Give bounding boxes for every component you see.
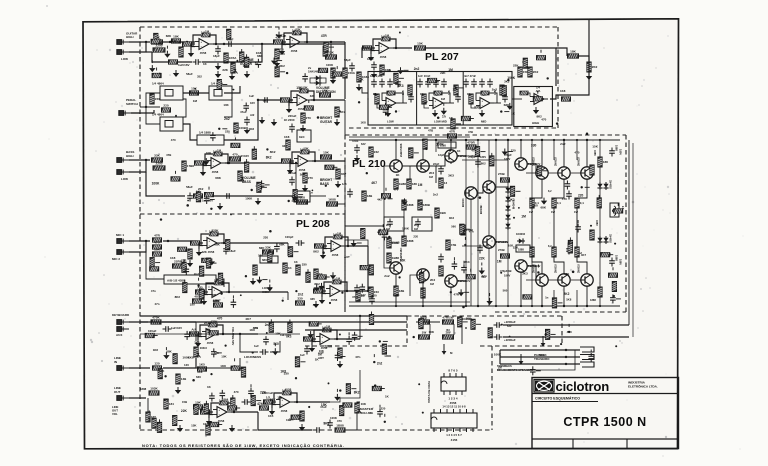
svg-text:8K2: 8K2 (263, 98, 269, 102)
svg-text:188: 188 (412, 182, 417, 186)
svg-text:4558: 4558 (200, 51, 207, 55)
svg-text:KEYBOARD: KEYBOARD (112, 313, 130, 317)
svg-text:0,1: 0,1 (580, 201, 585, 205)
svg-text:330: 330 (297, 297, 302, 301)
svg-text:18K: 18K (570, 50, 576, 54)
svg-text:22K: 22K (513, 64, 519, 68)
svg-text:47R/1W: 47R/1W (442, 316, 453, 320)
svg-text:58uF: 58uF (186, 185, 193, 189)
svg-text:1N4002: 1N4002 (516, 232, 526, 236)
svg-text:B913C: B913C (461, 198, 465, 207)
svg-text:4558: 4558 (285, 387, 292, 391)
svg-text:GUITAR: GUITAR (320, 120, 333, 124)
svg-text:8K2: 8K2 (537, 115, 543, 119)
svg-text:1n: 1n (545, 295, 549, 299)
svg-text:1M: 1M (429, 175, 434, 179)
svg-text:AUX: AUX (116, 333, 122, 337)
svg-text:1 2 3 4 5 6 7: 1 2 3 4 5 6 7 (446, 433, 462, 437)
svg-text:22K: 22K (222, 68, 228, 72)
svg-text:330: 330 (284, 372, 289, 376)
svg-text:68K: 68K (279, 243, 285, 247)
svg-text:58pF: 58pF (344, 58, 351, 62)
svg-text:2N6618: 2N6618 (578, 157, 581, 166)
svg-text:1M: 1M (337, 231, 342, 235)
svg-text:68K: 68K (215, 176, 221, 180)
svg-text:100K: 100K (325, 345, 333, 349)
svg-text:180V: 180V (504, 274, 510, 278)
svg-text:0,1: 0,1 (557, 201, 562, 205)
svg-text:MIC 2: MIC 2 (112, 257, 120, 261)
svg-text:1M: 1M (418, 183, 423, 187)
svg-text:8K2: 8K2 (286, 334, 292, 338)
svg-text:47R: 47R (278, 48, 284, 52)
svg-text:220uF: 220uF (288, 171, 297, 175)
svg-text:2xBC5396: 2xBC5396 (399, 143, 403, 157)
svg-text:10K: 10K (319, 349, 324, 353)
svg-text:A/A: A/A (191, 328, 197, 332)
svg-text:470R: 470R (467, 141, 475, 145)
svg-text:VOLUME: VOLUME (360, 411, 373, 415)
svg-text:470: 470 (171, 138, 176, 142)
svg-text:PL 208: PL 208 (296, 218, 330, 230)
svg-text:18B: 18B (399, 289, 405, 293)
svg-text:100K: 100K (402, 227, 410, 231)
svg-text:8K2: 8K2 (481, 161, 487, 165)
svg-text:100B: 100B (239, 126, 247, 130)
svg-text:4558: 4558 (291, 49, 298, 53)
svg-text:1K8: 1K8 (361, 120, 367, 124)
svg-text:22K: 22K (440, 71, 446, 75)
svg-text:1nF 10nF: 1nF 10nF (418, 74, 431, 78)
svg-text:1864: 1864 (222, 397, 229, 401)
svg-text:47n: 47n (373, 92, 378, 96)
svg-text:LOW MID: LOW MID (434, 120, 447, 124)
svg-text:1M: 1M (448, 68, 453, 72)
svg-text:470: 470 (217, 317, 223, 321)
svg-text:1888: 1888 (518, 248, 524, 252)
svg-text:335: 335 (310, 297, 315, 301)
svg-text:10K: 10K (221, 355, 227, 359)
svg-text:220: 220 (578, 193, 584, 197)
svg-text:220: 220 (372, 293, 377, 297)
svg-text:2n2: 2n2 (171, 39, 177, 43)
svg-text:3K3: 3K3 (448, 174, 454, 178)
svg-text:1N4148: 1N4148 (308, 70, 319, 74)
svg-text:470K: 470K (152, 316, 160, 320)
svg-text:2K2: 2K2 (592, 65, 598, 69)
svg-text:4K7: 4K7 (371, 181, 377, 185)
svg-text:100uF: 100uF (148, 329, 157, 333)
svg-text:330: 330 (190, 303, 195, 307)
svg-text:15K: 15K (322, 89, 328, 93)
svg-text:VISTA DE CIMA: VISTA DE CIMA (427, 380, 431, 403)
svg-text:330: 330 (531, 143, 537, 147)
svg-text:CIRCUITO ESQUEMÁTICO: CIRCUITO ESQUEMÁTICO (535, 396, 580, 401)
svg-text:220: 220 (225, 130, 230, 134)
svg-text:1K: 1K (457, 149, 460, 153)
svg-text:MID: MID (259, 246, 264, 250)
svg-text:270: 270 (306, 116, 311, 120)
svg-text:SWITCH: SWITCH (126, 102, 138, 106)
svg-text:470: 470 (393, 188, 398, 192)
svg-text:ciclotron: ciclotron (556, 379, 610, 394)
svg-text:47B: 47B (451, 243, 457, 247)
svg-text:560: 560 (481, 275, 486, 279)
svg-text:2K2: 2K2 (204, 321, 210, 325)
svg-text:16V: 16V (250, 101, 255, 105)
svg-text:15K: 15K (321, 403, 328, 407)
svg-text:15K: 15K (513, 245, 519, 249)
svg-text:1BC: 1BC (299, 135, 305, 139)
svg-text:2n2: 2n2 (377, 362, 383, 366)
svg-text:103K: 103K (150, 387, 158, 391)
svg-text:470: 470 (337, 419, 342, 423)
svg-text:1888: 1888 (140, 387, 147, 391)
svg-text:BASS: BASS (320, 182, 329, 186)
svg-text:47R: 47R (321, 34, 328, 38)
svg-text:180V: 180V (504, 157, 510, 161)
svg-text:LOW: LOW (121, 177, 128, 181)
svg-text:1K8: 1K8 (560, 89, 566, 93)
svg-text:1M: 1M (336, 276, 341, 280)
svg-text:184: 184 (169, 402, 174, 406)
svg-text:47n: 47n (257, 402, 263, 406)
svg-text:8,2: 8,2 (548, 245, 552, 248)
svg-text:2N6618: 2N6618 (578, 264, 581, 273)
svg-text:47R: 47R (449, 130, 455, 134)
svg-text:10K: 10K (429, 330, 435, 334)
svg-text:1W: 1W (574, 210, 578, 214)
svg-text:HIGH: HIGH (126, 154, 134, 158)
svg-text:10K: 10K (154, 248, 160, 252)
svg-text:NOTA: TODOS OS RESISTORES S: NOTA: TODOS OS RESISTORES SÃO DE 1/8W, E… (142, 443, 345, 448)
svg-text:220: 220 (263, 235, 268, 239)
svg-text:1M: 1M (205, 29, 210, 33)
svg-text:10K: 10K (275, 332, 281, 336)
svg-text:100K: 100K (384, 354, 392, 358)
svg-text:4K7: 4K7 (245, 317, 251, 321)
svg-text:1M: 1M (212, 293, 217, 297)
svg-text:15K: 15K (296, 86, 303, 90)
svg-text:560: 560 (503, 288, 508, 292)
svg-text:1W: 1W (551, 210, 555, 214)
svg-text:1M: 1M (414, 227, 419, 231)
svg-text:1K8: 1K8 (394, 240, 400, 244)
svg-text:PL 207: PL 207 (425, 51, 459, 63)
svg-text:1M: 1M (326, 324, 331, 328)
svg-text:33K: 33K (265, 246, 271, 250)
svg-text:47n: 47n (281, 34, 287, 38)
svg-text:270B: 270B (498, 172, 505, 176)
svg-text:15K: 15K (592, 144, 598, 148)
svg-text:470: 470 (387, 103, 392, 107)
svg-text:4558: 4558 (207, 341, 214, 345)
svg-text:68K: 68K (166, 350, 172, 354)
svg-text:1K: 1K (420, 92, 423, 96)
svg-text:ELETRÔNICA LTDA.: ELETRÔNICA LTDA. (628, 384, 658, 389)
svg-text:630: 630 (196, 375, 201, 379)
svg-text:(K): (K) (446, 328, 450, 332)
svg-text:A/2: A/2 (250, 113, 255, 117)
svg-text:47B: 47B (468, 130, 473, 134)
svg-text:8K2: 8K2 (313, 250, 319, 254)
svg-text:4K7: 4K7 (313, 303, 319, 307)
svg-text:3K3: 3K3 (194, 340, 200, 344)
svg-text:1K8: 1K8 (220, 364, 226, 368)
svg-text:4558: 4558 (208, 250, 215, 254)
svg-text:1M: 1M (441, 97, 446, 101)
svg-text:220: 220 (413, 234, 418, 238)
svg-text:2n2: 2n2 (577, 251, 582, 255)
svg-text:15K: 15K (191, 424, 197, 428)
svg-text:13B: 13B (181, 377, 187, 381)
svg-text:188B: 188B (423, 203, 431, 207)
svg-text:1B88: 1B88 (399, 182, 407, 186)
svg-text:470: 470 (154, 241, 159, 245)
svg-text:1M: 1M (193, 99, 198, 103)
svg-text:1M: 1M (498, 366, 503, 370)
svg-text:12pF: 12pF (438, 153, 445, 157)
svg-text:63V: 63V (361, 142, 366, 146)
svg-text:3K3: 3K3 (509, 198, 515, 202)
svg-text:3K3: 3K3 (504, 80, 510, 84)
svg-text:4558: 4558 (212, 170, 219, 174)
svg-text:8K2: 8K2 (270, 150, 276, 154)
svg-text:8K2: 8K2 (175, 295, 181, 299)
svg-text:10K: 10K (417, 202, 424, 206)
svg-text:47R: 47R (164, 398, 170, 402)
svg-text:LOUDNESS: LOUDNESS (244, 355, 261, 359)
svg-text:1/4 1888: 1/4 1888 (199, 131, 211, 135)
svg-text:180V: 180V (480, 155, 486, 159)
svg-text:1K5: 1K5 (268, 414, 274, 418)
svg-text:47n: 47n (155, 302, 160, 306)
svg-text:1N4002: 1N4002 (609, 180, 612, 189)
svg-text:18B: 18B (367, 194, 373, 198)
svg-text:10K: 10K (508, 244, 514, 248)
svg-text:1888: 1888 (590, 298, 596, 302)
svg-text:1N4002: 1N4002 (609, 234, 612, 243)
svg-text:270: 270 (308, 176, 313, 180)
svg-text:100K: 100K (393, 293, 400, 297)
svg-text:15B: 15B (182, 400, 187, 404)
svg-text:180V: 180V (619, 149, 623, 155)
svg-text:330: 330 (214, 351, 219, 355)
svg-text:100K: 100K (152, 181, 160, 185)
svg-text:A/B-1/2 4558: A/B-1/2 4558 (167, 279, 185, 283)
svg-text:15K: 15K (302, 85, 308, 89)
svg-text:TRASEIRO: TRASEIRO (534, 357, 550, 361)
svg-text:2K2: 2K2 (564, 292, 570, 296)
svg-text:68K: 68K (504, 103, 510, 107)
svg-text:220: 220 (163, 104, 168, 108)
svg-text:17B8: 17B8 (187, 164, 195, 168)
svg-text:1uF 2,2nF: 1uF 2,2nF (370, 74, 383, 78)
svg-text:22pF: 22pF (433, 162, 440, 166)
svg-text:2K2: 2K2 (533, 70, 539, 74)
svg-text:4558: 4558 (331, 298, 338, 302)
svg-text:330: 330 (474, 106, 480, 110)
svg-text:330: 330 (282, 144, 287, 148)
svg-text:1W: 1W (529, 210, 533, 214)
svg-text:2n2: 2n2 (560, 142, 566, 146)
svg-text:2n2: 2n2 (433, 193, 438, 197)
svg-text:1K8: 1K8 (249, 127, 255, 131)
svg-text:1/4 4864: 1/4 4864 (152, 82, 164, 86)
svg-text:1M: 1M (497, 259, 502, 263)
svg-text:1 2 3 4: 1 2 3 4 (448, 397, 458, 401)
svg-text:+2200uF: +2200uF (504, 320, 516, 324)
svg-text:220: 220 (289, 418, 294, 422)
svg-text:232: 232 (374, 150, 379, 154)
svg-text:68K: 68K (214, 242, 220, 246)
svg-text:10K: 10K (223, 103, 229, 107)
svg-text:HIGH: HIGH (126, 35, 134, 39)
svg-text:352: 352 (197, 75, 202, 79)
svg-text:1uF/16V: 1uF/16V (171, 326, 182, 330)
svg-text:270B: 270B (498, 248, 505, 252)
svg-text:1n: 1n (423, 317, 427, 321)
svg-text:100K: 100K (326, 63, 334, 67)
svg-text:220: 220 (155, 97, 160, 101)
svg-text:AXT: AXT (344, 255, 350, 259)
svg-text:HIGH: HIGH (532, 121, 539, 125)
svg-text:1/4: 1/4 (536, 86, 540, 90)
svg-text:MID: MID (481, 120, 486, 124)
svg-text:8K2: 8K2 (314, 282, 320, 286)
svg-text:2n2: 2n2 (384, 274, 390, 278)
svg-text:68K: 68K (270, 398, 277, 402)
svg-text:1K8: 1K8 (188, 356, 194, 360)
svg-text:4558: 4558 (380, 55, 387, 59)
svg-text:68K: 68K (159, 369, 165, 373)
svg-text:13: 13 (444, 181, 448, 185)
svg-text:1M: 1M (385, 33, 390, 37)
svg-text:1K8: 1K8 (466, 317, 472, 321)
svg-text:47n: 47n (355, 355, 360, 359)
svg-text:LOW: LOW (387, 120, 394, 124)
svg-text:LOW: LOW (121, 57, 128, 61)
svg-text:BASS: BASS (242, 180, 251, 184)
svg-text:CTPR 1500 N: CTPR 1500 N (563, 415, 646, 429)
svg-text:470: 470 (280, 52, 285, 56)
svg-text:1888: 1888 (615, 255, 619, 261)
svg-text:OUT: OUT (114, 390, 121, 394)
svg-text:8,2: 8,2 (548, 190, 552, 193)
svg-text:2n2: 2n2 (224, 117, 230, 121)
svg-text:220: 220 (381, 407, 386, 411)
svg-text:120: 120 (154, 362, 159, 366)
svg-text:1M: 1M (430, 282, 435, 286)
svg-text:MIC 1: MIC 1 (116, 233, 124, 237)
svg-text:8K2: 8K2 (266, 156, 272, 160)
svg-text:2n2: 2n2 (298, 292, 304, 296)
svg-text:22K: 22K (181, 409, 188, 413)
svg-text:330: 330 (302, 263, 307, 267)
svg-text:3K3: 3K3 (398, 84, 404, 88)
svg-text:8 7 6 5: 8 7 6 5 (448, 369, 458, 373)
svg-text:58uF: 58uF (186, 72, 193, 76)
svg-text:2200: 2200 (156, 162, 163, 166)
svg-text:1K: 1K (467, 92, 470, 96)
svg-text:2n2: 2n2 (422, 100, 428, 104)
svg-text:XB8: XB8 (440, 211, 446, 215)
svg-text:1uF: 1uF (300, 353, 305, 357)
svg-text:330: 330 (310, 94, 315, 98)
svg-text:IN: IN (114, 360, 117, 364)
svg-text:220: 220 (511, 149, 516, 153)
svg-text:8K2: 8K2 (354, 391, 360, 395)
svg-text:2n2: 2n2 (492, 87, 498, 91)
svg-text:1K88: 1K88 (328, 198, 336, 202)
svg-text:10K: 10K (361, 402, 367, 406)
svg-text:47uF: 47uF (352, 295, 359, 299)
svg-text:330: 330 (470, 154, 475, 158)
svg-text:68K: 68K (166, 34, 172, 38)
svg-text:3K3: 3K3 (449, 216, 455, 220)
svg-text:470: 470 (541, 118, 546, 122)
svg-text:188: 188 (603, 160, 608, 164)
svg-text:100K: 100K (436, 143, 444, 147)
svg-text:15K: 15K (191, 87, 197, 91)
svg-text:3K3: 3K3 (464, 260, 470, 264)
svg-text:100K: 100K (245, 196, 253, 200)
svg-text:4558: 4558 (281, 409, 288, 413)
svg-text:1uF/16V: 1uF/16V (178, 63, 190, 67)
svg-text:63V: 63V (361, 293, 366, 297)
svg-text:1uF/16V: 1uF/16V (238, 154, 249, 158)
svg-text:47B: 47B (428, 129, 433, 133)
svg-text:2n2: 2n2 (300, 173, 306, 177)
svg-text:ART: ART (318, 356, 324, 360)
svg-text:1888: 1888 (593, 150, 596, 156)
svg-text:120: 120 (184, 363, 189, 367)
svg-text:1W: 1W (422, 331, 427, 335)
svg-text:4156: 4156 (451, 438, 458, 442)
svg-text:1M: 1M (217, 148, 222, 152)
svg-text:100pF: 100pF (285, 235, 294, 239)
svg-text:4K7: 4K7 (341, 172, 347, 176)
svg-text:1K8: 1K8 (153, 348, 159, 352)
svg-text:3K3: 3K3 (323, 422, 329, 426)
svg-text:15K: 15K (400, 259, 407, 263)
svg-text:188V: 188V (595, 220, 598, 226)
svg-text:1K8: 1K8 (197, 370, 203, 374)
svg-text:560: 560 (297, 413, 302, 417)
svg-text:18pF: 18pF (213, 54, 220, 58)
svg-text:2N6618: 2N6618 (555, 157, 558, 166)
svg-text:1uF: 1uF (254, 344, 259, 348)
svg-text:47R: 47R (154, 234, 160, 238)
svg-text:1K8: 1K8 (256, 51, 262, 55)
svg-text:10K: 10K (206, 151, 211, 155)
svg-text:B913B: B913B (479, 205, 483, 214)
svg-text:2200: 2200 (288, 118, 295, 122)
svg-text:47uF: 47uF (352, 139, 359, 143)
svg-text:2N6618: 2N6618 (533, 264, 536, 273)
svg-text:68K: 68K (564, 272, 569, 276)
svg-text:2n2: 2n2 (194, 272, 200, 276)
svg-text:HIGH: HIGH (262, 290, 269, 294)
svg-text:1M: 1M (521, 215, 526, 219)
svg-text:22K: 22K (260, 390, 267, 394)
svg-text:18pF: 18pF (367, 57, 374, 61)
svg-text:470: 470 (234, 390, 239, 394)
svg-text:1888: 1888 (615, 145, 619, 151)
svg-text:1M: 1M (243, 64, 248, 68)
svg-text:2N6618: 2N6618 (555, 264, 558, 273)
svg-text:47n: 47n (151, 289, 156, 293)
